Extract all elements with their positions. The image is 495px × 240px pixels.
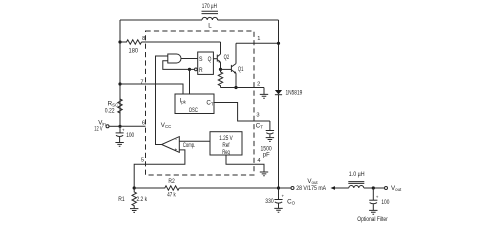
svg-text:Comp.: Comp. bbox=[183, 142, 195, 149]
wire: top rail left segment bbox=[120, 19, 202, 21]
wire: right rail upper (to diode) bbox=[278, 20, 280, 90]
diode 1N5819 bbox=[275, 90, 303, 97]
ground (input cap) bbox=[115, 143, 123, 147]
wire: ref reg to pin 4 ground bbox=[226, 155, 264, 172]
wire: pin 1 wire to right rail bbox=[236, 42, 279, 44]
svg-text:8: 8 bbox=[142, 36, 145, 42]
wire: Q1 collector up to pin 1 wire bbox=[235, 43, 237, 63]
AND gate bbox=[168, 54, 181, 63]
wire: Q2 emitter down bbox=[220, 62, 222, 69]
ground (pin 4) bbox=[260, 172, 268, 176]
ground (CO) bbox=[274, 208, 282, 212]
node: feedback / R1 / R2 junction bbox=[133, 186, 136, 189]
svg-text:+: + bbox=[282, 194, 285, 199]
svg-text:7: 7 bbox=[140, 79, 143, 85]
svg-text:5: 5 bbox=[141, 158, 144, 164]
svg-text:1: 1 bbox=[257, 36, 260, 42]
svg-text:4: 4 bbox=[257, 158, 260, 164]
node: Vin junction bbox=[118, 125, 121, 128]
inductor 1.0uH (optional filter) bbox=[348, 171, 364, 188]
svg-text:Reg: Reg bbox=[222, 149, 230, 156]
inductor L 170uH bbox=[202, 3, 219, 29]
resistor R1 2.2k bbox=[118, 188, 147, 208]
comparator bbox=[162, 137, 196, 154]
ground (CT cap) bbox=[266, 138, 274, 142]
wire: Q2 collector up bbox=[220, 42, 222, 54]
wire: right rail lower (diode to output node) bbox=[278, 95, 280, 188]
wire: comparator + input to pin 5 feedback bbox=[134, 150, 185, 188]
node: left rail / 180 ohm junction bbox=[118, 40, 121, 43]
svg-text:2.2 k: 2.2 k bbox=[137, 196, 148, 203]
node: emitter / pin2 wire junction bbox=[234, 86, 237, 89]
svg-text:+: + bbox=[376, 194, 379, 199]
svg-text:47 k: 47 k bbox=[167, 191, 176, 198]
svg-text:+: + bbox=[174, 148, 177, 154]
svg-text:Q: Q bbox=[208, 56, 212, 63]
svg-text:CO: CO bbox=[287, 198, 295, 205]
terminal Vin bbox=[94, 120, 109, 133]
svg-text:Q2: Q2 bbox=[224, 54, 230, 61]
1.25V Ref Reg block bbox=[210, 132, 242, 156]
resistor R2 47k bbox=[134, 178, 179, 198]
wire: junction down to OSC top bbox=[189, 69, 191, 94]
svg-text:R: R bbox=[199, 67, 203, 74]
node: filter cap junction bbox=[372, 186, 375, 189]
svg-text:R1: R1 bbox=[118, 196, 125, 203]
svg-text:Q1: Q1 bbox=[238, 66, 244, 73]
node: output junction bbox=[277, 186, 280, 189]
wire: latch Q to Q2 base bbox=[213, 58, 217, 60]
svg-text:1.0 µH: 1.0 µH bbox=[349, 171, 365, 178]
wire: comparator output up to AND gate input bbox=[156, 56, 168, 145]
svg-text:2: 2 bbox=[257, 82, 260, 88]
transistor Q2 bbox=[217, 54, 229, 63]
capacitor 100uF (filter) bbox=[369, 188, 390, 210]
wire: Rsc stubs bbox=[119, 95, 121, 126]
ground (filter cap) bbox=[369, 210, 377, 214]
svg-text:CT: CT bbox=[206, 100, 213, 107]
wire: R2 to output node bbox=[179, 187, 278, 189]
wire: node to Q1 base bbox=[221, 68, 232, 70]
resistor Rsc 0.22 bbox=[105, 99, 122, 115]
svg-text:Optional Filter: Optional Filter bbox=[357, 216, 387, 223]
capacitor CT 1500 pF bbox=[261, 121, 275, 158]
wire: pin2 ground stub bbox=[263, 88, 265, 95]
node: R input / OSC junction bbox=[188, 68, 191, 71]
wire: pin 8 wire into IC to Q2 collector bbox=[142, 41, 221, 43]
svg-text:180: 180 bbox=[129, 48, 139, 55]
wire: Q1 emitter down bbox=[235, 73, 237, 87]
node: left rail / pin7 junction bbox=[118, 82, 121, 85]
wire: left rail bbox=[119, 20, 121, 126]
terminal Vout (filtered) bbox=[385, 187, 388, 190]
wire: pin 2 wire bbox=[221, 87, 265, 89]
latch U1 (S-R) bbox=[198, 52, 214, 74]
wire: AND output to latch S bbox=[181, 58, 198, 60]
svg-text:CT: CT bbox=[256, 123, 263, 130]
svg-text:OSC: OSC bbox=[189, 107, 199, 114]
ground (pin 2) bbox=[260, 94, 268, 98]
wire: Vin terminal to node bbox=[109, 125, 120, 127]
svg-text:+: + bbox=[122, 128, 125, 133]
svg-text:S: S bbox=[199, 56, 203, 63]
svg-text:330: 330 bbox=[265, 198, 274, 205]
wire: output node to Vout terminal bbox=[279, 187, 292, 189]
svg-text:1.25 V: 1.25 V bbox=[219, 135, 233, 142]
wire: OSC CT output to pin 3 bbox=[214, 103, 270, 122]
svg-text:R2: R2 bbox=[168, 178, 175, 185]
wire: junction to R input bubble bbox=[190, 68, 195, 70]
svg-text:1N5819: 1N5819 bbox=[286, 90, 303, 97]
svg-text:28 V/175 mA: 28 V/175 mA bbox=[296, 185, 327, 192]
svg-text:Ipk: Ipk bbox=[180, 97, 187, 104]
wire: filter inductor to Vout terminal bbox=[364, 187, 385, 189]
inverter bubble on R input bbox=[195, 68, 198, 71]
svg-text:6: 6 bbox=[142, 120, 145, 126]
node: Q2 emitter / Q1 base junction bbox=[219, 68, 222, 71]
svg-text:Vout: Vout bbox=[391, 185, 402, 192]
resistor (Q1 base-emitter) bbox=[218, 69, 222, 87]
node: pin1 / right rail junction bbox=[277, 42, 280, 45]
wire: AND gate lower input loop to OSC/R net bbox=[163, 61, 190, 70]
ground (R1) bbox=[130, 209, 138, 213]
IC dashed box MC34063A bbox=[146, 31, 255, 175]
wire: ref reg to comparator inverting input bbox=[179, 140, 210, 142]
resistor 180 (to pin 8) bbox=[120, 40, 142, 55]
terminal Vout bbox=[291, 187, 294, 190]
svg-text:0.22: 0.22 bbox=[105, 108, 115, 115]
capacitor 100uF input bbox=[116, 126, 135, 142]
wire: Vin node to pin 6 bbox=[120, 125, 146, 127]
svg-text:100: 100 bbox=[381, 199, 389, 206]
svg-text:12 V: 12 V bbox=[94, 126, 103, 133]
svg-text:pF: pF bbox=[263, 151, 270, 158]
svg-text:VCC: VCC bbox=[161, 122, 171, 129]
svg-text:170 µH: 170 µH bbox=[202, 3, 217, 10]
transistor Q1 bbox=[231, 64, 243, 74]
svg-text:3: 3 bbox=[256, 113, 259, 119]
wire: pin 7 wire to OSC Ipk input bbox=[120, 84, 183, 94]
wire: arrow to filter inductor bbox=[335, 187, 349, 189]
OSC block bbox=[175, 94, 214, 114]
arrow to optional filter bbox=[331, 186, 336, 190]
svg-text:100: 100 bbox=[126, 132, 134, 139]
capacitor CO 330 bbox=[265, 188, 295, 208]
wire: top rail right segment bbox=[218, 19, 279, 21]
svg-text:L: L bbox=[208, 22, 212, 29]
